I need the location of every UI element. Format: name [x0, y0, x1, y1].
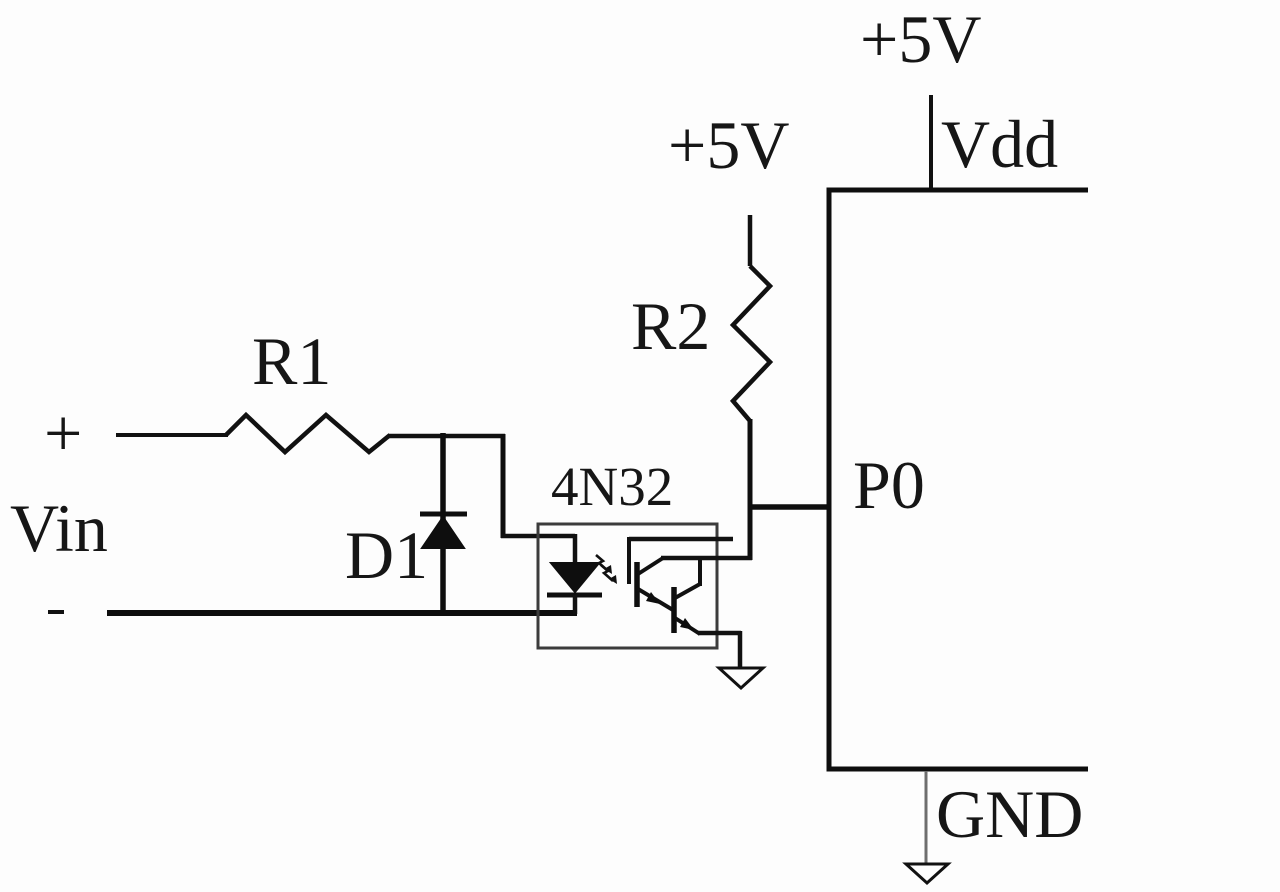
- wire P0 horizontal: [748, 504, 831, 510]
- LED anode lead: [573, 534, 578, 564]
- wire Vdd pin vertical: [929, 95, 933, 190]
- diode D1 body (filled triangle up): [422, 517, 464, 548]
- svg-text:D1: D1: [345, 517, 428, 593]
- optocoupler U2 body box: [538, 524, 717, 648]
- svg-text:GND: GND: [936, 776, 1083, 852]
- wire Q2 collector vertical: [698, 556, 702, 586]
- svg-text:Vdd: Vdd: [941, 106, 1058, 182]
- svg-text:R1: R1: [252, 323, 331, 399]
- diode D1 cathode bar: [420, 512, 467, 517]
- wire Q2 emitter horizontal: [698, 631, 741, 636]
- terminal -: [48, 610, 64, 614]
- light arrow 2: [601, 565, 613, 581]
- phototransistor Q1 base stub vertical: [627, 537, 631, 584]
- svg-text:4N32: 4N32: [551, 456, 673, 517]
- wire Vin+ horizontal: [116, 433, 228, 437]
- wire node vertical (R2 bottom to collector line): [748, 419, 753, 560]
- phototransistor Q1 base bar: [634, 562, 640, 607]
- wire R1 output: [388, 434, 505, 439]
- phototransistor Q1 collector diagonal: [638, 558, 663, 574]
- LED body (filled triangle down): [551, 563, 599, 592]
- svg-text:+: +: [44, 395, 82, 471]
- wire GND pin: [925, 771, 928, 864]
- resistor R1: [226, 415, 390, 452]
- wire R2 top stub: [748, 215, 753, 266]
- transistor Q2 collector diagonal: [675, 584, 700, 598]
- svg-text:+5V: +5V: [668, 107, 789, 183]
- transistor Q2 emitter diagonal: [675, 618, 700, 634]
- wire Vin- bottom: [107, 610, 577, 616]
- MCU U1 box (open right side): [829, 190, 1088, 769]
- phototransistor Q1 emitter diagonal: [638, 589, 673, 610]
- wire corner down to opto: [501, 434, 506, 538]
- svg-text:P0: P0: [853, 447, 925, 523]
- transistor Q2 emitter arrow: [680, 618, 694, 630]
- wire Q1 collector horizontal: [661, 556, 752, 561]
- svg-text:+5V: +5V: [860, 1, 981, 77]
- LED cathode bar: [547, 593, 602, 598]
- LED cathode lead: [573, 595, 578, 614]
- transistor Q2 base bar: [671, 587, 677, 633]
- phototransistor Q1 base stub horizontal: [629, 537, 733, 542]
- wire emitter down: [738, 631, 743, 669]
- svg-text:Vin: Vin: [10, 490, 108, 566]
- diode D1 lead vertical: [440, 433, 446, 616]
- ground (MCU GND pin): [906, 864, 948, 883]
- ground (optocoupler emitter): [719, 668, 763, 688]
- svg-text:R2: R2: [631, 288, 710, 364]
- wire corner right into opto: [501, 534, 575, 539]
- light arrow 1: [596, 555, 608, 571]
- resistor R2: [733, 266, 770, 421]
- phototransistor Q1 emitter arrow: [646, 592, 660, 604]
